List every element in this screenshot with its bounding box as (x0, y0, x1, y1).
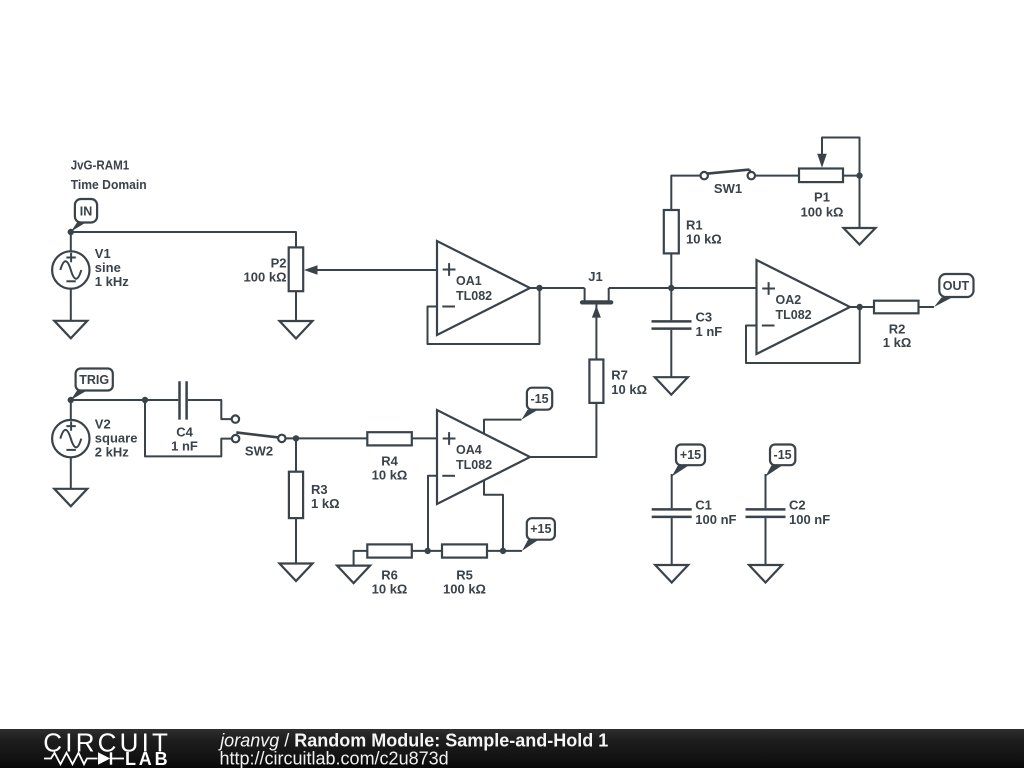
resistor R6 (367, 544, 412, 557)
node TRIG junction dot (68, 397, 74, 403)
svg-text:1 nF: 1 nF (696, 324, 723, 339)
resistor R2 (874, 301, 919, 314)
voltage source V2 (52, 420, 89, 457)
svg-text:R6: R6 (381, 568, 398, 583)
node R1/C3 junction dot (668, 285, 674, 291)
op-amp OA1 (437, 241, 530, 335)
node OA1 output dot (536, 285, 542, 291)
capacitor C3 (652, 288, 723, 377)
capacitor C2 (746, 474, 831, 565)
wire P1 wiper loop and right terminal to ground (822, 138, 860, 229)
svg-text:http://circuitlab.com/c2u873d: http://circuitlab.com/c2u873d (220, 749, 449, 768)
wire R1 top to SW1 (671, 176, 700, 210)
wire OA4 V- pin to -15 (484, 420, 522, 434)
svg-text:C1: C1 (695, 498, 712, 513)
wire OA4 V+ pin down (484, 480, 503, 551)
svg-text:R7: R7 (611, 368, 628, 383)
potentiometer P1 body (799, 169, 843, 183)
logo zigzag resistor and diode (44, 752, 124, 764)
node feedback junction dot (425, 548, 431, 554)
ground under P1 (844, 228, 876, 245)
svg-text:SW2: SW2 (245, 444, 273, 459)
wire OA4 output to R7 (530, 403, 596, 457)
node R3 junction dot (293, 435, 299, 441)
wire R1 bottom (670, 253, 672, 288)
svg-text:10 kΩ: 10 kΩ (611, 382, 647, 397)
voltage source V1 (52, 251, 89, 288)
ground under V1 (54, 321, 87, 339)
P1 wiper arrow (817, 154, 827, 168)
capacitor C1 (652, 474, 737, 565)
wire R3 bottom to ground (295, 518, 297, 563)
svg-text:TL082: TL082 (456, 289, 492, 303)
ground under V2 (54, 489, 87, 507)
wire SW2 common to R4 (286, 437, 368, 439)
ground under C3 (655, 377, 688, 395)
wire SW1 to P1 (755, 175, 799, 177)
svg-text:OA4: OA4 (456, 443, 482, 457)
wire OA2 output (850, 306, 874, 308)
node OA2 output dot (857, 304, 863, 310)
capacitor C4 (171, 381, 231, 453)
switch SW1 (701, 170, 756, 196)
node V+ junction dot (500, 548, 506, 554)
svg-text:V1: V1 (95, 246, 111, 261)
flag OUT (934, 274, 974, 307)
svg-text:10 kΩ: 10 kΩ (372, 582, 408, 597)
svg-text:C2: C2 (789, 498, 806, 513)
resistor R3 (289, 472, 303, 518)
wire V1 bottom to ground (70, 289, 72, 321)
svg-text:OUT: OUT (943, 279, 970, 293)
op-amp OA2 (757, 260, 851, 354)
svg-text:C3: C3 (696, 310, 713, 325)
wire V2 top stub (70, 400, 72, 420)
svg-text:10 kΩ: 10 kΩ (372, 468, 408, 483)
svg-text:joranvg / Random Module: Sampl: joranvg / Random Module: Sample-and-Hold… (217, 731, 608, 751)
wire P2 wiper to OA1 plus input (317, 269, 438, 271)
wire V1 top stub (70, 232, 72, 251)
ground under C1 (655, 565, 688, 583)
footer bar (0, 729, 1024, 768)
wire J1 source to OA2 (609, 287, 757, 289)
ground at R6 (337, 566, 370, 584)
svg-text:SW1: SW1 (714, 181, 742, 196)
svg-text:100 kΩ: 100 kΩ (443, 582, 486, 597)
svg-text:P1: P1 (814, 190, 830, 205)
svg-text:R4: R4 (381, 454, 398, 469)
svg-text:10 kΩ: 10 kΩ (686, 232, 722, 247)
svg-text:R3: R3 (311, 482, 328, 497)
ground under R3 (280, 564, 313, 582)
P2 wiper arrow (304, 265, 318, 275)
svg-text:JvG-RAM1: JvG-RAM1 (71, 158, 130, 173)
svg-text:V2: V2 (95, 417, 111, 432)
wire TRIG node to C4 (71, 399, 179, 401)
wire ground to R6 (354, 551, 368, 566)
svg-text:1 kΩ: 1 kΩ (883, 335, 912, 350)
svg-text:100 nF: 100 nF (695, 512, 736, 527)
svg-text:OA1: OA1 (456, 274, 482, 288)
wire R3 top (295, 438, 297, 471)
svg-text:OA2: OA2 (776, 293, 802, 307)
wire OA1 output (530, 287, 585, 289)
svg-text:TRIG: TRIG (79, 373, 109, 387)
svg-text:J1: J1 (588, 269, 602, 284)
flag TRIG (71, 369, 113, 401)
op-amp OA4 (437, 410, 530, 504)
wire node IN to P2 top (71, 232, 296, 248)
wire C4 bypass branch (145, 400, 232, 456)
resistor R7 (589, 360, 603, 403)
wire R5 to +15 (487, 550, 522, 552)
resistor R4 (367, 432, 412, 445)
node C4 branch junction dot (142, 397, 148, 403)
svg-text:R1: R1 (686, 218, 703, 233)
svg-text:sine: sine (95, 260, 121, 275)
svg-text:P2: P2 (271, 256, 287, 271)
svg-text:IN: IN (80, 205, 93, 219)
svg-text:TL082: TL082 (456, 458, 492, 472)
svg-text:TL082: TL082 (776, 308, 812, 322)
svg-text:2 kHz: 2 kHz (95, 445, 129, 460)
flag +15 at C1 (672, 445, 705, 477)
svg-text:100 kΩ: 100 kΩ (244, 270, 287, 285)
wire P2 bottom to ground (295, 291, 297, 321)
svg-text:100 nF: 100 nF (789, 512, 830, 527)
wire OA4 feedback to bottom rail (428, 476, 437, 551)
resistor R1 (664, 210, 679, 253)
svg-text:-15: -15 (530, 392, 548, 406)
transistor J1 (582, 269, 611, 360)
svg-text:LAB: LAB (125, 749, 170, 768)
resistor R5 (442, 544, 487, 557)
svg-text:C4: C4 (176, 425, 193, 440)
svg-text:1 kΩ: 1 kΩ (311, 496, 340, 511)
svg-text:1 nF: 1 nF (171, 439, 198, 454)
svg-text:square: square (95, 431, 138, 446)
node P1 junction dot (856, 172, 862, 178)
svg-text:+15: +15 (530, 522, 551, 536)
wire OA2 feedback loop (746, 307, 860, 363)
svg-text:Time Domain: Time Domain (71, 177, 147, 192)
flag IN (71, 199, 97, 232)
svg-text:100 kΩ: 100 kΩ (801, 205, 844, 220)
wire R6 to R5 (412, 550, 442, 552)
svg-text:R5: R5 (456, 568, 473, 583)
flag -15 at C2 (766, 445, 796, 477)
svg-text:+15: +15 (680, 448, 701, 462)
node IN junction dot (68, 229, 74, 235)
flag -15 at OA4 (522, 388, 553, 420)
wire V2 bottom to ground (70, 457, 72, 489)
ground under C2 (749, 565, 782, 583)
wire R2 to OUT (919, 306, 935, 308)
potentiometer P2 body (289, 247, 304, 291)
svg-text:1 kHz: 1 kHz (95, 274, 129, 289)
wire R4 to OA4 (412, 437, 437, 439)
svg-text:-15: -15 (774, 448, 792, 462)
switch SW2 (232, 415, 286, 458)
ground under P2 (280, 321, 313, 339)
wire OA1 feedback loop (428, 288, 540, 344)
flag +15 at OA4 (522, 518, 555, 551)
